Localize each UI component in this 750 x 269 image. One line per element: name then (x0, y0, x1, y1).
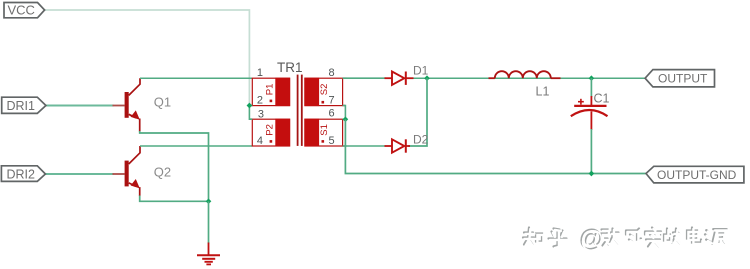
winding S2 (pins 8-7) (305, 78, 343, 105)
connector flag VCC (4, 3, 45, 18)
wire D1 to OUTPUT (414, 77, 646, 79)
junction C1/output-gnd rail (589, 171, 595, 177)
diode D2 (385, 139, 411, 152)
wire Q2 emitter to ground junction (140, 196, 209, 202)
svg-text:L1: L1 (536, 85, 550, 99)
junction center tap left (247, 103, 253, 109)
winding P2 (pins 3-4) (252, 119, 289, 146)
wire Q2 collector to TR1 pin 4 (140, 145, 252, 147)
pin stub TR1 pin 6 (343, 118, 346, 120)
wire center tap left (pins 2-3) (249, 106, 252, 120)
junction emitter/ground (206, 198, 212, 204)
pin stub TR1 pin 2 (249, 105, 252, 107)
svg-text:S2: S2 (319, 84, 330, 96)
pin stub TR1 pin 8 (343, 77, 347, 79)
wire center tap right (pins 7-6) (343, 106, 346, 120)
capacitor C1 (polarized) (571, 78, 608, 173)
svg-text:4: 4 (257, 135, 263, 147)
connector flag OUTPUT (645, 70, 714, 87)
svg-text:5: 5 (329, 135, 335, 147)
wire ground bus down (208, 201, 210, 243)
svg-text:VCC: VCC (8, 3, 35, 18)
pin stub TR1 pin 7 (343, 105, 346, 107)
wire D2 cathode to D1 junction (408, 78, 427, 146)
wire Q1 collector to TR1 pin 1 (140, 77, 252, 79)
svg-text:8: 8 (329, 67, 335, 79)
pin stub TR1 pin 3 (249, 118, 252, 120)
svg-text:@: @ (580, 226, 604, 253)
inductor L1 (489, 71, 561, 78)
wire TR1 pin 8 to D1 (343, 77, 386, 79)
core lines (297, 75, 303, 146)
pin stub TR1 pin 5 (343, 145, 347, 147)
svg-text:Q2: Q2 (154, 164, 171, 179)
svg-text:OUTPUT-GND: OUTPUT-GND (657, 168, 737, 182)
transistor Q2 (NPN) (125, 146, 140, 196)
svg-text:6: 6 (329, 108, 335, 120)
wire DRI1 net (46, 105, 114, 107)
svg-text:D2: D2 (413, 133, 429, 147)
wire VCC net (flag to center-tap junction) (44, 10, 249, 106)
winding S1 (pins 6-5) (305, 119, 343, 146)
svg-text:TR1: TR1 (277, 60, 303, 75)
pin stub Q1 base (113, 105, 125, 107)
svg-text:7: 7 (329, 95, 335, 107)
connector flag DRI2 (1, 166, 45, 182)
svg-text:C1: C1 (594, 92, 610, 106)
svg-text:P1: P1 (265, 84, 276, 96)
pin stub Q2 base (113, 173, 125, 175)
wire center tap to output ground rail (345, 119, 646, 173)
svg-text:P2: P2 (265, 124, 276, 136)
svg-text:OUTPUT: OUTPUT (658, 72, 708, 86)
junction L1/C1 (589, 75, 595, 81)
svg-text:2: 2 (257, 95, 263, 107)
svg-text:DRI1: DRI1 (7, 99, 36, 113)
watermark 知乎 @张飞实战电源 (drawn as vector strokes, embossed) (523, 225, 728, 253)
svg-text:S1: S1 (319, 124, 330, 136)
svg-text:1: 1 (257, 67, 263, 79)
transistor Q1 (NPN) (125, 78, 140, 131)
svg-text:Q1: Q1 (154, 94, 171, 109)
connector flag DRI1 (2, 97, 46, 113)
wire TR1 pin 5 to D2 (343, 145, 386, 147)
diode D1 (385, 72, 414, 85)
connector flag OUTPUT-GND (646, 166, 744, 183)
svg-text:3: 3 (258, 109, 264, 121)
svg-text:DRI2: DRI2 (7, 168, 36, 182)
wire DRI2 net (45, 173, 113, 175)
junction D1/D2 (424, 75, 430, 81)
ground symbol GND (197, 243, 220, 265)
wire Q1 emitter to ground bus (140, 131, 209, 201)
winding P1 (pins 1-2) (252, 78, 289, 105)
junction center tap right (343, 116, 349, 122)
svg-text:D1: D1 (413, 64, 429, 78)
